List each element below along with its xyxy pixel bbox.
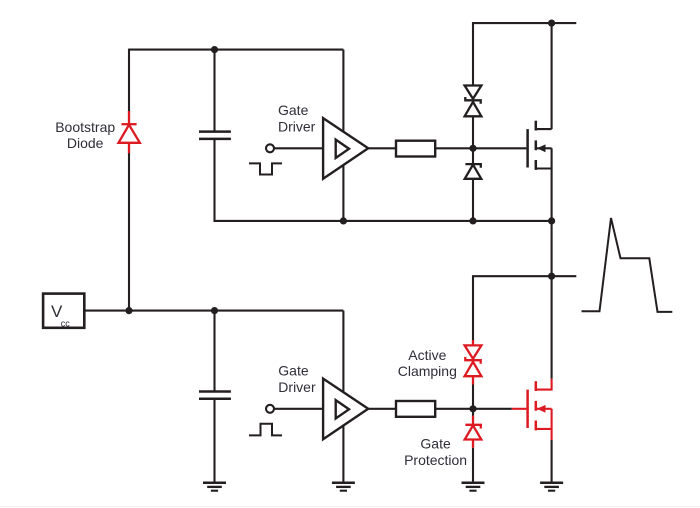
wire top drain rail with stub [473, 23, 576, 85]
wire high-side driver supply/ground vertical [342, 50, 344, 221]
svg-text:Clamping: Clamping [398, 363, 457, 379]
diode Z1 zener bar with hooks [465, 97, 480, 104]
wire gate node to Q2 gate black segment [473, 408, 512, 410]
svg-text:Diode: Diode [67, 135, 104, 151]
wire gate node down to protection diode D2 [472, 148, 474, 164]
diode D3 gate protection (red) [465, 416, 482, 448]
wire U1 output to gate resistor [368, 147, 396, 149]
svg-text:Gate: Gate [278, 363, 309, 379]
svg-text:Driver: Driver [278, 118, 316, 134]
node junction dot mosfet source on rail [548, 217, 555, 224]
page bottom separator line [0, 506, 700, 508]
wire U2 output to gate resistor [368, 408, 396, 410]
wire capacitor C1 top lead [213, 50, 215, 132]
resistor R1 high-side gate resistor [396, 141, 435, 157]
op-amp U1 high-side gate driver triangle [323, 118, 368, 179]
wire Q2 body-source vertical red segment [551, 409, 553, 440]
diode Z1 top TVS clamp upper triangle [465, 86, 482, 99]
svg-text:Protection: Protection [404, 452, 467, 468]
ground symbol protection diode leg [462, 483, 485, 491]
wire capacitor C2 bottom lead to ground [213, 399, 215, 483]
node junction dot Vcc rail / bootstrap diode [125, 307, 132, 314]
transistor Q2 body line with arrow (red) [537, 408, 552, 410]
node junction dot phase node [548, 273, 555, 280]
wire bootstrap branch lower black segment [128, 152, 130, 310]
label Vcc box [43, 294, 84, 328]
wire D2 to common rail [472, 179, 474, 221]
svg-text:Gate: Gate [420, 436, 451, 452]
diode Z1 lower triangle [465, 102, 482, 116]
wire Q1 drain to top rail [551, 23, 553, 129]
ground symbol low-side driver [332, 483, 355, 491]
node junction dot top-left rail / capacitor [211, 46, 218, 53]
diode D2 gate protection zener bar [465, 164, 480, 168]
node junction dot diode leg on rail [469, 217, 476, 224]
wire gate node to Q1 gate [473, 147, 526, 149]
ground symbol capacitor C2 [203, 483, 226, 491]
transistor Q1 drain tap [536, 128, 552, 130]
wire resistor R2 to low-side gate node [435, 408, 473, 410]
wire gate node down to protection diode D3 black segment [472, 409, 474, 417]
wire Z1 to gate node [472, 116, 474, 148]
node input terminal circle U1 [266, 144, 274, 152]
transistor Q1 high-side MOSFET gate bar [526, 129, 529, 167]
wire Q2 gate red segment [512, 408, 527, 410]
ground symbol Q2 source [540, 483, 563, 491]
wire U2 input lead [274, 408, 322, 410]
node input terminal circle U2 [266, 405, 274, 413]
wire Q1 body-source vertical down to low-side drain [551, 148, 553, 378]
wire low-side driver supply/ground vertical [342, 311, 344, 483]
transistor Q2 source tap (red) [536, 428, 552, 430]
node junction dot Vcc rail / capacitor C2 [211, 307, 218, 314]
transistor Q2 drain tap (red) [536, 379, 552, 390]
svg-text:Bootstrap: Bootstrap [55, 119, 115, 135]
wire D3 to ground black segment [472, 448, 474, 483]
svg-text:Gate: Gate [278, 102, 309, 118]
transistor Q1 source tap [536, 167, 552, 169]
diode D1 bootstrap (red) [119, 111, 140, 153]
wire Vcc rail to low-side driver [84, 310, 343, 312]
svg-text:cc: cc [61, 319, 70, 329]
capacitor C2 Vcc decoupling capacitor [199, 392, 231, 399]
wire resistor R1 to gate node [435, 147, 473, 149]
op-amp U1 inner buffer triangle [336, 140, 349, 158]
transistor Q1 body line with arrow [537, 147, 552, 149]
op-amp U2 low-side gate driver triangle [323, 379, 368, 440]
resistor R2 low-side gate resistor [396, 401, 435, 417]
diode Z2 active clamping TVS (red) [465, 340, 482, 385]
waveform positive pulse input symbol [249, 424, 282, 436]
svg-text:Driver: Driver [278, 379, 316, 395]
wire TVS Z2 lower black segment to gate node [472, 384, 474, 409]
wire top-left rail from bootstrap diode to high-side driver supply [129, 49, 343, 51]
diode D2 triangle [465, 165, 482, 179]
wire capacitor C2 top lead [213, 311, 215, 392]
waveform switch-node pulse [582, 218, 673, 312]
wire bootstrap branch upper black segment [128, 49, 130, 112]
transistor Q1 channel dashes [535, 121, 538, 170]
waveform inverted pulse input symbol [249, 163, 282, 174]
wire phase rail with stub [473, 276, 576, 341]
capacitor C1 bootstrap capacitor [199, 132, 231, 139]
node junction dot driver ground on rail [340, 217, 347, 224]
node junction dot low-side gate node [469, 405, 476, 412]
node junction dot top rail / Q1 drain [548, 20, 555, 27]
wire U1 input lead [274, 147, 322, 149]
wire capacitor C1 bottom lead and high-side common rail [215, 139, 552, 221]
wire Q2 source to ground black segment [551, 440, 553, 483]
transistor Q2 channel dashes (red) [535, 381, 538, 430]
transistor Q2 low-side MOSFET gate bar (red) [526, 390, 529, 428]
node junction dot high-side gate node [469, 145, 476, 152]
svg-text:Active: Active [408, 347, 446, 363]
op-amp U2 inner buffer triangle [336, 400, 349, 418]
